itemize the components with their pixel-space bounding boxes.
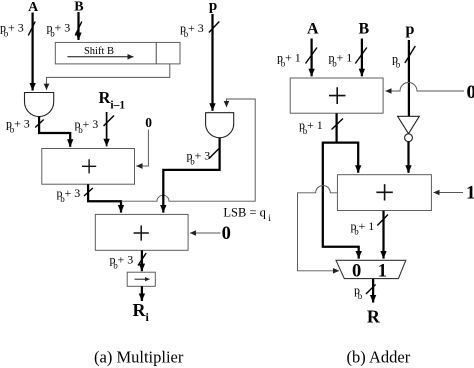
svg-text:(b) Adder: (b) Adder bbox=[347, 348, 411, 367]
adder V1 plus bbox=[329, 87, 346, 104]
svg-text:1: 1 bbox=[466, 183, 474, 204]
wire B input (b) bbox=[361, 39, 363, 77]
svg-text:pb + 3: pb + 3 bbox=[180, 21, 204, 39]
wire U2 output to shifter bbox=[141, 251, 143, 272]
wire inverter output to V2 bbox=[407, 142, 409, 173]
bus slash on G1 output bbox=[35, 120, 44, 128]
wire p input bbox=[211, 14, 213, 111]
wire shift-out feedback to gate G1 bbox=[47, 64, 170, 90]
wire carry-out to mux select with hop bbox=[298, 186, 340, 271]
inverter T1 bbox=[398, 116, 420, 133]
svg-text:pb + 1: pb + 1 bbox=[277, 51, 301, 69]
svg-text:1: 1 bbox=[378, 262, 387, 282]
wire U1 output to adder U2 bbox=[88, 184, 121, 212]
svg-text:pb + 3: pb + 3 bbox=[6, 117, 30, 135]
shift direction arrow bbox=[67, 56, 133, 58]
svg-text:B: B bbox=[358, 21, 369, 38]
svg-text:Ri–1: Ri–1 bbox=[99, 88, 126, 112]
bus slash on V1 output bbox=[332, 119, 344, 130]
bus slash on G2 output bbox=[209, 148, 220, 159]
adder U1 plus bbox=[82, 159, 96, 173]
and gate G2 bbox=[206, 113, 234, 138]
bus slash on p bbox=[209, 22, 219, 33]
bus slash on U2 output bbox=[138, 253, 146, 266]
svg-text:p: p bbox=[406, 21, 415, 38]
bus slash on mux output bbox=[366, 285, 376, 295]
svg-text:R: R bbox=[367, 307, 381, 327]
svg-text:pb + 3: pb + 3 bbox=[47, 21, 71, 39]
svg-text:pb + 1: pb + 1 bbox=[351, 219, 375, 237]
svg-text:0: 0 bbox=[222, 224, 231, 244]
wire B input bbox=[77, 12, 79, 40]
wire V2 output to mux 1 input bbox=[382, 211, 384, 259]
svg-text:(a) Multiplier: (a) Multiplier bbox=[94, 348, 184, 367]
adder U2 plus bbox=[134, 225, 149, 240]
svg-text:pb: pb bbox=[354, 283, 363, 301]
svg-text:0: 0 bbox=[352, 262, 361, 282]
wire 0 into V1 with hop over p bbox=[386, 83, 465, 92]
svg-text:Shift B: Shift B bbox=[84, 46, 114, 57]
shifter box bbox=[127, 272, 155, 286]
bus slash on p (b) bbox=[405, 46, 415, 63]
wire R_i-1 input bbox=[106, 112, 108, 146]
adder V2 box bbox=[337, 175, 431, 211]
svg-text:0: 0 bbox=[467, 82, 474, 103]
shifter arrow bbox=[135, 278, 150, 280]
adder V2 plus bbox=[376, 184, 392, 200]
mux M1 bbox=[336, 260, 406, 278]
svg-text:pb + 3: pb + 3 bbox=[110, 253, 134, 271]
bus slash on A bbox=[28, 22, 35, 36]
and gate G1 bbox=[25, 93, 54, 117]
svg-text:A: A bbox=[307, 21, 319, 38]
wire R_i output bbox=[141, 286, 143, 301]
svg-text:p: p bbox=[209, 0, 217, 14]
bus slash on R_i-1 bbox=[104, 116, 115, 127]
inverter bubble bbox=[405, 134, 413, 142]
bus slash on B (b) bbox=[355, 48, 367, 64]
svg-text:pb + 3: pb + 3 bbox=[57, 186, 81, 204]
svg-text:pb + 3: pb + 3 bbox=[75, 117, 99, 135]
bus slash on B bbox=[75, 22, 82, 36]
bus slash on V2 output bbox=[377, 215, 388, 226]
wire A input (b) bbox=[310, 39, 312, 77]
register tap sub-box bbox=[156, 42, 180, 64]
register Shift B box bbox=[55, 42, 156, 64]
svg-text:Ri: Ri bbox=[133, 300, 150, 324]
svg-text:pb + 3: pb + 3 bbox=[0, 21, 24, 39]
wire 1 into V2 bbox=[434, 192, 464, 194]
svg-text:LSB = qi: LSB = qi bbox=[223, 205, 271, 223]
adder V1 box bbox=[290, 78, 383, 113]
bus slash on U1 output bbox=[84, 188, 93, 196]
svg-text:pb + 3: pb + 3 bbox=[187, 149, 211, 167]
bus slash on A (b) bbox=[306, 48, 318, 64]
svg-text:0: 0 bbox=[145, 115, 152, 130]
svg-text:pb + 1: pb + 1 bbox=[299, 118, 323, 136]
wire V1 output bbox=[335, 113, 337, 142]
adder U1 box bbox=[42, 149, 135, 185]
wire 0 into U2 bbox=[190, 232, 221, 234]
svg-text:pb: pb bbox=[392, 52, 401, 70]
wire p input (b) bbox=[408, 40, 410, 116]
wire LSB feedback q_i to gate G2 bbox=[121, 99, 255, 201]
wire branch to adder V2 bbox=[323, 143, 358, 173]
wire G1 output to adder U1 bbox=[39, 117, 70, 147]
wire G2 output to adder U2 bbox=[163, 138, 219, 213]
svg-text:pb + 1: pb + 1 bbox=[329, 51, 353, 69]
wire 0 into U1 bbox=[136, 130, 148, 167]
adder U2 box bbox=[95, 214, 188, 250]
wire mux output R bbox=[372, 279, 374, 303]
wire branch to mux 0 input bbox=[323, 142, 359, 259]
wire A input bbox=[31, 13, 33, 91]
